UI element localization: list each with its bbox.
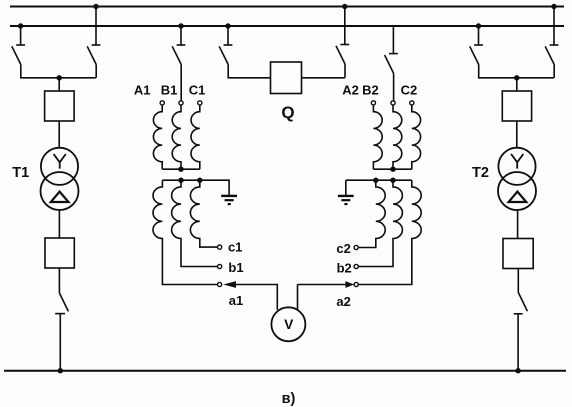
svg-text:b1: b1 (228, 260, 243, 275)
svg-text:c1: c1 (228, 239, 242, 254)
svg-text:a2: a2 (336, 294, 350, 309)
svg-text:T2: T2 (472, 165, 489, 181)
svg-text:T1: T1 (12, 165, 29, 181)
svg-text:A1: A1 (134, 83, 151, 98)
svg-text:B2: B2 (362, 83, 379, 98)
svg-text:в): в) (282, 391, 296, 407)
svg-text:C2: C2 (401, 83, 418, 98)
svg-text:Q: Q (281, 103, 294, 122)
svg-text:a1: a1 (229, 293, 243, 308)
svg-text:V: V (284, 317, 294, 332)
svg-text:c2: c2 (336, 241, 350, 256)
svg-text:A2: A2 (342, 83, 359, 98)
svg-text:B1: B1 (161, 83, 178, 98)
svg-text:b2: b2 (337, 260, 352, 275)
svg-text:C1: C1 (189, 83, 206, 98)
